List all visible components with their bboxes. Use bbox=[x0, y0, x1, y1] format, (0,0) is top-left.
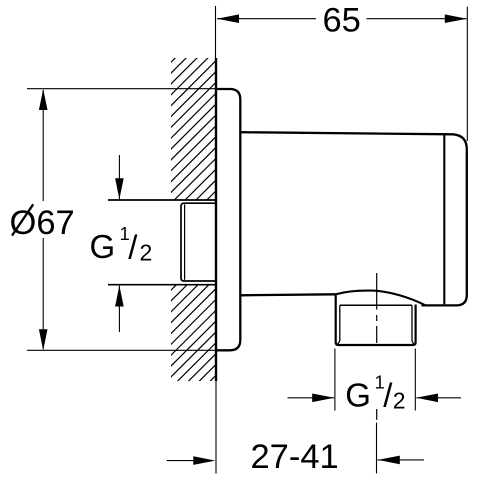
dim 27-41: left extension line (wall face) bbox=[215, 381, 217, 474]
dim 27-41: right arrow bbox=[378, 456, 425, 465]
svg-text:/: / bbox=[383, 377, 393, 414]
svg-text:/: / bbox=[128, 228, 138, 265]
outlet thread root right bbox=[412, 305, 414, 344]
outlet thread shoulder line bbox=[340, 304, 412, 306]
svg-text:65: 65 bbox=[323, 1, 361, 39]
dim 65: right extension line bbox=[466, 7, 468, 141]
dim Ø67: dimension line bbox=[42, 90, 44, 349]
body outline (cover, top and right) bbox=[240, 132, 466, 305]
body bottom edge (left of outlet) bbox=[240, 294, 335, 295]
dim 65: right arrowhead bbox=[445, 14, 467, 23]
dim Ø67: bottom extension line bbox=[27, 349, 215, 351]
wall face line bbox=[215, 58, 217, 381]
dim 65: text bbox=[323, 1, 361, 39]
dim Ø67: top extension line bbox=[27, 88, 216, 90]
svg-text:2: 2 bbox=[140, 239, 153, 265]
outlet nipple G1/2 thread outline bbox=[336, 294, 416, 345]
inlet dim: lower arrow bbox=[115, 286, 124, 333]
outlet dim: left extension line bbox=[334, 349, 336, 411]
inlet hole top edge bbox=[108, 199, 216, 201]
inlet hole bottom edge bbox=[108, 284, 216, 286]
svg-text:G: G bbox=[345, 376, 371, 413]
outlet thread root left bbox=[338, 305, 340, 344]
dim 27-41: left arrow bbox=[167, 456, 216, 465]
dim 65: left arrowhead bbox=[217, 14, 239, 23]
flange (escutcheon back plate) bbox=[216, 89, 240, 350]
inlet dim: upper arrow bbox=[115, 155, 124, 199]
svg-text:2: 2 bbox=[393, 388, 406, 414]
outlet dim: right extension line bbox=[414, 349, 416, 411]
dim 65: left extension line (wall face) bbox=[215, 6, 217, 58]
outlet dim: right arrow bbox=[416, 394, 461, 403]
body front-face tangent line bbox=[443, 135, 445, 304]
svg-text:G: G bbox=[90, 228, 116, 265]
outlet boss curve bbox=[336, 291, 425, 306]
outlet dim: left arrow bbox=[288, 394, 335, 403]
dim Ø67: top arrowhead bbox=[39, 89, 48, 110]
inlet nipple G1/2 thread bbox=[181, 203, 216, 281]
outlet G 1/2 label bbox=[345, 372, 405, 414]
inlet G 1/2 label bbox=[90, 223, 153, 265]
outlet centerline bbox=[376, 273, 378, 420]
dim Ø67: bottom arrowhead bbox=[39, 329, 48, 350]
svg-text:27-41: 27-41 bbox=[251, 438, 339, 476]
dim 65: dimension line bbox=[217, 18, 467, 20]
dim 27-41: text bbox=[251, 438, 339, 476]
dim 27-41: right extension line (outlet axis) bbox=[376, 423, 378, 474]
dim Ø67: text bbox=[10, 204, 75, 242]
inlet thread root line bbox=[184, 204, 186, 279]
